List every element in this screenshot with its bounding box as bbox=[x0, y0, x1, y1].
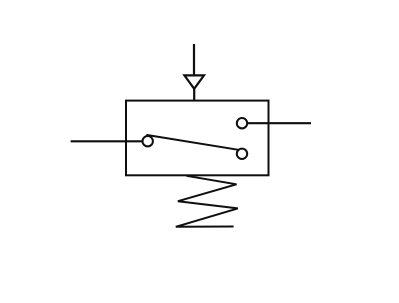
wire left terminal bbox=[71, 140, 143, 142]
actuator plunger stem bbox=[193, 44, 195, 78]
actuator arrowhead (open triangle) bbox=[184, 75, 204, 88]
wire right terminal bbox=[247, 122, 311, 124]
actuator stem to body bbox=[193, 89, 195, 101]
contact lower (normally closed) bbox=[237, 149, 247, 159]
switch body S1 bbox=[126, 101, 269, 176]
spring return bbox=[176, 176, 238, 227]
contact upper (normally open) bbox=[237, 118, 247, 128]
movable contact arm bbox=[146, 135, 238, 150]
contact pivot (common) bbox=[143, 136, 153, 146]
